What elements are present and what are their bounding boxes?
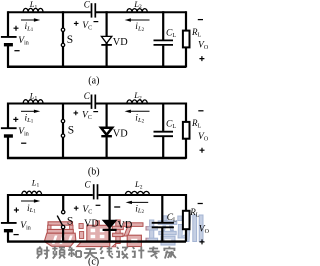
current arrow iL1 (b) bbox=[21, 110, 40, 113]
slogan character tian bbox=[84, 249, 97, 259]
svg-text:L2: L2 bbox=[133, 90, 142, 101]
svg-text:C: C bbox=[85, 180, 92, 190]
diode VD branch wire (c) bbox=[108, 194, 110, 242]
label + of Vo (b) bbox=[200, 148, 205, 153]
svg-text:VC: VC bbox=[82, 205, 92, 216]
svg-text:VO: VO bbox=[199, 224, 209, 235]
wire: bottom rail (b) bbox=[7, 157, 186, 160]
wire: left rail upper (b) bbox=[7, 103, 9, 128]
diode VD branch wire (a) bbox=[105, 11, 107, 67]
inductor L1 (a) bbox=[23, 8, 43, 12]
svg-text:CL: CL bbox=[167, 213, 177, 224]
svg-text:L1: L1 bbox=[31, 177, 40, 188]
label − of Vin (c) bbox=[14, 234, 19, 236]
wire: left rail lower (c) bbox=[7, 231, 9, 242]
svg-text:RL: RL bbox=[191, 118, 202, 130]
current arrow iL2 (a) bbox=[125, 18, 150, 21]
svg-text:RL: RL bbox=[189, 207, 200, 219]
voltage source Vin (b): battery plates bbox=[1, 128, 17, 136]
svg-text:iL2: iL2 bbox=[135, 22, 144, 33]
label + of VC (c) bbox=[74, 206, 79, 211]
capacitor CL (b): plates bbox=[154, 132, 174, 137]
wire: top rail right of C (c) bbox=[98, 194, 186, 196]
label − of VC (a) bbox=[94, 21, 99, 23]
svg-text:(a): (a) bbox=[88, 75, 99, 86]
label + of Vo (a) bbox=[199, 56, 204, 61]
svg-text:VO: VO bbox=[198, 41, 209, 52]
svg-text:Vin: Vin bbox=[20, 221, 30, 232]
label − of Vo (a) bbox=[198, 19, 203, 21]
wire: bottom rail (a) bbox=[7, 65, 186, 68]
watermark big character 4 (pei) bbox=[146, 216, 177, 245]
label − of Vo (c) bbox=[198, 203, 203, 205]
slogan character jia bbox=[163, 247, 176, 259]
current arrow iL2 (c) bbox=[126, 201, 149, 204]
slogan character ji bbox=[132, 247, 145, 259]
slogan character he bbox=[68, 247, 81, 258]
svg-text:iL2: iL2 bbox=[135, 204, 144, 215]
wire: left rail upper (a) bbox=[7, 11, 9, 36]
diode VD branch wire (b) bbox=[105, 103, 107, 159]
svg-text:iL1: iL1 bbox=[25, 22, 34, 33]
resistor RL (c) bbox=[183, 211, 190, 229]
wire: top rail left of C (c) bbox=[8, 194, 93, 196]
slogan character zhuan bbox=[148, 247, 160, 259]
slogan character she2 bbox=[116, 247, 128, 259]
svg-text:RL: RL bbox=[191, 27, 202, 39]
svg-text:S: S bbox=[67, 216, 73, 228]
svg-text:iL1: iL1 bbox=[27, 204, 36, 215]
capacitor C (c): plates bbox=[94, 184, 98, 199]
svg-text:L2: L2 bbox=[133, 0, 142, 10]
wire: left rail lower (a) bbox=[7, 45, 9, 68]
watermark big character 5 (xun) bbox=[178, 215, 203, 242]
svg-text:Vin: Vin bbox=[18, 127, 28, 138]
wire: left rail upper (c) bbox=[7, 194, 9, 222]
wire: right rail upper (c) bbox=[185, 194, 187, 211]
watermark big character 1 (yi) bbox=[44, 222, 76, 247]
wire: right rail lower (b) bbox=[185, 138, 187, 159]
label − before iL2 (c) bbox=[114, 206, 120, 208]
capacitor C (b): plates bbox=[92, 95, 96, 109]
svg-text:iL2: iL2 bbox=[135, 114, 144, 125]
label + of Vin (c) bbox=[14, 208, 19, 213]
open switch S branch wire lower (c) bbox=[62, 229, 64, 242]
svg-text:VD: VD bbox=[84, 219, 99, 230]
svg-text:VO: VO bbox=[198, 132, 209, 143]
diode VD (a): hollow triangle and cathode bar bbox=[101, 36, 112, 45]
capacitor C (a): plates bbox=[92, 3, 96, 17]
watermark slogan text (gray) bbox=[37, 247, 176, 259]
current arrow iL1 (c) bbox=[21, 199, 40, 202]
open switch S terminal node top (c) bbox=[62, 210, 65, 213]
svg-text:C: C bbox=[84, 91, 91, 101]
wire: right rail lower (c) bbox=[185, 230, 187, 242]
wire: top rail left of C (b) bbox=[8, 103, 91, 105]
wire: top rail right of C (a) bbox=[96, 11, 186, 13]
wire: top rail right of C (b) bbox=[96, 103, 186, 105]
watermark big character 2 (di) bbox=[77, 221, 110, 247]
svg-text:VC: VC bbox=[82, 111, 92, 122]
label − of Vo (b) bbox=[198, 110, 203, 112]
svg-text:L2: L2 bbox=[134, 179, 143, 190]
inductor L2 (a) bbox=[127, 9, 147, 13]
open switch S blade (c) bbox=[57, 216, 62, 226]
svg-text:Vin: Vin bbox=[18, 36, 28, 47]
capacitor CL branch wire upper (c) bbox=[161, 194, 163, 222]
label − of Vin (a) bbox=[14, 50, 19, 52]
wire: top rail left of C (a) bbox=[8, 11, 91, 13]
wire: left rail lower (b) bbox=[7, 136, 9, 159]
svg-text:VD: VD bbox=[117, 220, 132, 231]
watermark big character 3 (tuo) bbox=[112, 220, 143, 247]
capacitor CL branch wire upper (a) bbox=[162, 11, 164, 39]
label − of Vin (b) bbox=[21, 142, 26, 144]
wire: right rail upper (b) bbox=[185, 103, 187, 123]
label − of VC (c) bbox=[96, 204, 101, 206]
capacitor CL branch wire lower (b) bbox=[162, 137, 164, 159]
svg-text:S: S bbox=[68, 125, 74, 137]
diode VD (b): bold triangle and cathode bar bbox=[101, 128, 112, 137]
label + of Vin (b) bbox=[13, 117, 18, 122]
current arrow iL2 (b) bbox=[125, 110, 150, 113]
label + of VC (b) bbox=[74, 111, 79, 116]
slogan character xian bbox=[100, 247, 113, 259]
svg-text:VD: VD bbox=[113, 129, 128, 140]
switch S branch wire (a) bbox=[62, 11, 64, 67]
svg-text:C: C bbox=[84, 0, 91, 10]
svg-text:L1: L1 bbox=[29, 91, 38, 102]
capacitor CL (c): plates bbox=[152, 223, 174, 228]
open switch S branch wire upper (c) bbox=[62, 194, 64, 210]
svg-text:CL: CL bbox=[166, 120, 176, 131]
inductor L2 (b) bbox=[127, 100, 147, 104]
diode VD (c): filled triangle and cathode bar bbox=[103, 220, 117, 230]
svg-text:CL: CL bbox=[166, 28, 176, 39]
resistor RL (b) bbox=[183, 122, 190, 139]
switch S terminal node bottom (b) bbox=[61, 134, 64, 137]
svg-text:L1: L1 bbox=[29, 0, 38, 10]
inductor L1 (c) bbox=[22, 191, 42, 195]
label + of VC (a) bbox=[74, 21, 79, 26]
switch S terminal node top (b) bbox=[61, 119, 64, 122]
wire: bottom rail (c) bbox=[7, 240, 186, 242]
voltage source Vin (a): battery plates bbox=[1, 37, 17, 45]
inductor L1 (b) bbox=[23, 100, 43, 104]
capacitor CL branch wire upper (b) bbox=[162, 103, 164, 131]
voltage source Vin (c): battery plates bbox=[1, 223, 17, 231]
capacitor CL branch wire lower (a) bbox=[162, 46, 164, 68]
open switch S terminal node bottom (c) bbox=[61, 225, 64, 228]
svg-text:VC: VC bbox=[82, 21, 92, 32]
slogan character she bbox=[37, 247, 50, 259]
wire: right rail upper (a) bbox=[185, 11, 187, 31]
capacitor CL branch wire lower (c) bbox=[161, 228, 163, 242]
resistor RL (a) bbox=[183, 31, 190, 48]
switch S terminal node bottom (a) bbox=[61, 43, 64, 46]
label + of Vo (c) bbox=[200, 239, 205, 244]
label − of VC (b) bbox=[93, 111, 98, 113]
svg-text:S: S bbox=[67, 34, 73, 46]
switch S terminal node top (a) bbox=[61, 28, 64, 31]
slogan character pin bbox=[52, 247, 65, 259]
svg-text:(b): (b) bbox=[88, 167, 100, 178]
watermark: big red/blue Chinese logo text and gray slogan (drawn as shapes) bbox=[37, 215, 203, 259]
capacitor CL (a): plates bbox=[154, 40, 174, 45]
wire: right rail lower (a) bbox=[185, 47, 187, 68]
inductor L2 (c) bbox=[125, 191, 149, 195]
label + of Vin (a) bbox=[14, 26, 19, 31]
svg-text:iL1: iL1 bbox=[25, 114, 34, 125]
svg-text:VD: VD bbox=[113, 37, 128, 48]
current arrow iL1 (a) bbox=[21, 18, 40, 21]
switch S branch wire (b) bbox=[62, 103, 64, 159]
svg-text:(c): (c) bbox=[88, 257, 99, 266]
